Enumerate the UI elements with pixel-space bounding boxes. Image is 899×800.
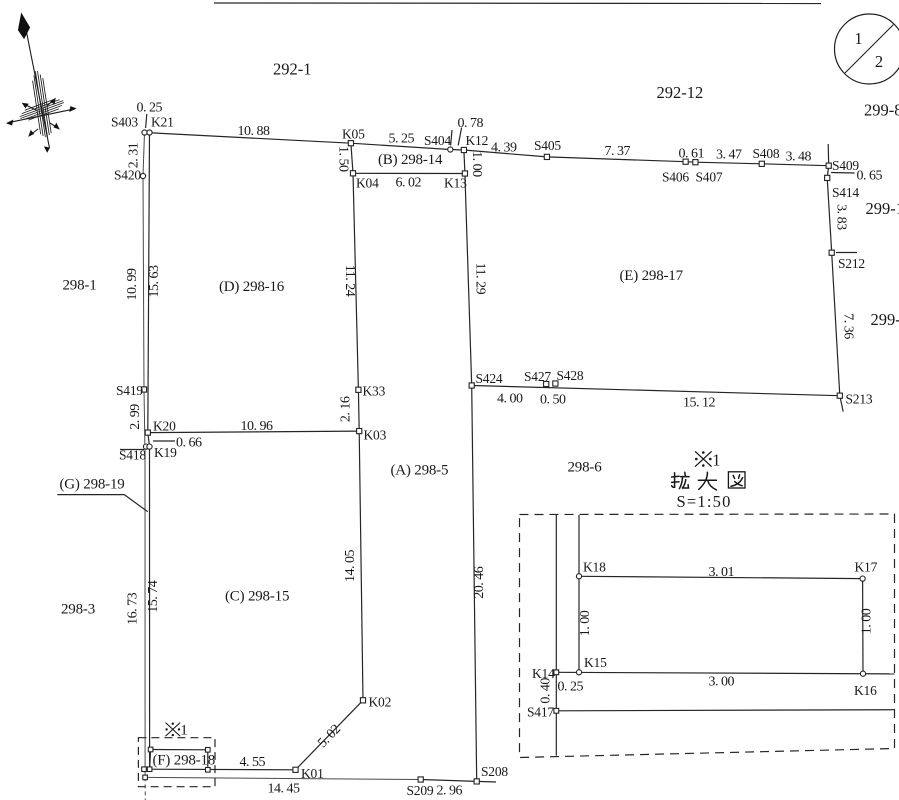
svg-text:11. 29: 11. 29 — [472, 263, 487, 295]
svg-text:2: 2 — [875, 52, 883, 71]
svg-text:299-8: 299-8 — [864, 101, 899, 120]
boundary K12-K13 (1.00) — [464, 150, 465, 174]
boundary K13-S424 (11.29) — [465, 174, 472, 386]
svg-text:10. 88: 10. 88 — [238, 124, 271, 139]
stub below S213 — [840, 396, 843, 412]
svg-text:S424: S424 — [476, 371, 503, 386]
point S405 (square marker) — [544, 154, 549, 159]
svg-text:0. 61: 0. 61 — [679, 147, 705, 162]
detail line K14-K15-K16 (3.00) — [556, 672, 894, 674]
svg-text:S409: S409 — [832, 158, 859, 173]
svg-text:2. 16: 2. 16 — [338, 396, 353, 422]
south line corner-K01 (4.55) — [144, 768, 296, 771]
south line S209-S208 (2.96) — [421, 780, 477, 782]
svg-text:S208: S208 — [481, 764, 508, 779]
svg-text:6. 02: 6. 02 — [396, 176, 422, 191]
svg-text:K15: K15 — [584, 655, 607, 670]
boundary K04-K33 (11.24) — [353, 173, 358, 389]
detail vertical line through K14/S417 — [555, 515, 557, 756]
point S209 (square marker) — [418, 777, 423, 782]
svg-text:S403: S403 — [111, 115, 138, 130]
point F corner NW (square marker) — [148, 747, 153, 752]
boundary S403-K05 (10.88) — [145, 133, 351, 144]
svg-text:3. 01: 3. 01 — [709, 565, 735, 580]
point K12 (square marker) — [461, 147, 466, 152]
svg-text:292-1: 292-1 — [273, 60, 312, 79]
svg-text:K01: K01 — [301, 766, 324, 781]
boundary K04-K13 (6.02) — [353, 172, 465, 174]
point S404 (circle marker) — [448, 147, 453, 152]
svg-text:(F) 298-18: (F) 298-18 — [153, 753, 216, 769]
boundary S424-S208 (20.46) — [472, 386, 477, 782]
svg-text:14. 45: 14. 45 — [268, 782, 301, 797]
svg-text:2. 31: 2. 31 — [127, 142, 142, 168]
point S419 (square marker) — [141, 387, 146, 392]
tick above S403 for 0.25 — [146, 114, 147, 128]
svg-text:S209: S209 — [407, 783, 434, 798]
svg-text:(D) 298-16: (D) 298-16 — [219, 279, 285, 295]
svg-text:299-: 299- — [871, 310, 899, 329]
point K01 (square marker) — [293, 767, 298, 772]
svg-text:S212: S212 — [838, 256, 865, 271]
svg-text:K18: K18 — [583, 560, 606, 575]
svg-text:K03: K03 — [364, 428, 387, 443]
svg-text:S417: S417 — [527, 705, 554, 720]
point S420 (circle marker) — [140, 173, 145, 178]
tick above K12 — [458, 128, 461, 146]
stub above S409 — [827, 144, 830, 166]
leader 0.66 from K19 — [153, 440, 175, 442]
boundary K12-S405 (4.39) — [464, 150, 547, 157]
svg-text:(A) 298-5: (A) 298-5 — [391, 463, 449, 479]
svg-text:K33: K33 — [363, 384, 386, 399]
annotation ※ (large) — [695, 451, 712, 467]
svg-text:S=1:50: S=1:50 — [677, 492, 732, 511]
svg-text:S427: S427 — [524, 369, 551, 384]
point S208 (square marker) — [474, 779, 479, 784]
point S417 (square marker) — [554, 708, 559, 713]
svg-text:10. 96: 10. 96 — [241, 419, 274, 434]
svg-text:2. 99: 2. 99 — [128, 404, 143, 430]
point K04 (square marker) — [350, 171, 355, 176]
svg-text:3. 48: 3. 48 — [786, 150, 812, 165]
svg-text:10. 99: 10. 99 — [125, 268, 140, 301]
point S213 (square marker) — [837, 393, 842, 398]
svg-text:11. 24: 11. 24 — [342, 265, 357, 297]
point K03 (square marker) — [357, 429, 362, 434]
svg-text:S406: S406 — [662, 170, 689, 185]
svg-text:2. 96: 2. 96 — [437, 784, 463, 799]
west K-line K21-K20 (15.63) — [148, 133, 150, 433]
point F corner SE (square marker) — [206, 768, 211, 773]
parcel F rect top — [151, 749, 208, 751]
west S-line S403-S420 (2.31) — [143, 133, 145, 177]
point S424 (square marker) — [469, 383, 474, 388]
svg-text:K04: K04 — [356, 176, 379, 191]
point south corner on S-line (square marker) — [143, 775, 148, 780]
svg-text:7. 36: 7. 36 — [841, 313, 856, 339]
svg-text:(G) 298-19: (G) 298-19 — [60, 477, 125, 493]
detail line S417 east — [556, 710, 894, 711]
svg-text:0. 25: 0. 25 — [558, 680, 584, 695]
svg-text:3. 47: 3. 47 — [716, 148, 742, 163]
svg-text:K19: K19 — [154, 445, 177, 460]
tick at S212 — [836, 252, 857, 254]
svg-text:K05: K05 — [342, 127, 365, 142]
boundary S404-K12 — [450, 149, 464, 152]
boundary K05-K04 (1.50) — [351, 143, 353, 173]
leader 0.65 from S409 — [831, 172, 855, 175]
svg-text:15. 74: 15. 74 — [146, 580, 161, 613]
point K20 (square marker) — [145, 430, 150, 435]
annotation 拡大図 (enlargement) drawn as vector strokes — [672, 472, 745, 490]
svg-text:15. 12: 15. 12 — [683, 396, 716, 411]
point K05 (square marker) — [348, 141, 353, 146]
svg-text:0. 40: 0. 40 — [539, 678, 554, 704]
point K18 (circle marker) — [576, 574, 581, 579]
svg-text:16. 73: 16. 73 — [126, 592, 141, 625]
sheet number circle 1/2 — [835, 14, 899, 84]
point S407 (square marker) — [693, 160, 698, 165]
tick at S418 — [120, 449, 144, 451]
detail line K18-K17 (3.01) — [579, 576, 863, 578]
dashed box enlargement detail — [520, 514, 895, 758]
svg-text:(E) 298-17: (E) 298-17 — [620, 268, 684, 284]
point south corner b (square marker) — [147, 767, 152, 772]
top border heavy line — [214, 2, 821, 5]
point K21 (circle marker) — [147, 130, 152, 135]
svg-text:S404: S404 — [424, 133, 451, 148]
point south corner a (square marker) — [142, 767, 147, 772]
svg-text:299-1: 299-1 — [866, 199, 899, 218]
svg-text:3. 83: 3. 83 — [833, 204, 848, 230]
tick above S404 — [451, 130, 452, 145]
west S-line S419-S418 (2.99) — [144, 390, 145, 453]
point K17 (circle marker) — [860, 576, 865, 581]
svg-text:4. 00: 4. 00 — [497, 392, 523, 407]
boundary K03-K02 (14.05) — [359, 431, 363, 700]
boundary K20-K03 (10.96) — [148, 431, 359, 433]
west S-line S418-south corner (16.73) — [144, 452, 146, 777]
svg-text:4. 39: 4. 39 — [491, 141, 517, 156]
boundary S414-S212 (3.83) — [827, 178, 832, 253]
svg-text:298-3: 298-3 — [61, 602, 95, 618]
point K14 (square marker) — [554, 670, 559, 675]
detail line K17-K16 (1.00) — [862, 579, 864, 674]
boundary S406-S407 (0.61) — [686, 161, 696, 164]
point K15 (circle marker) — [576, 670, 581, 675]
svg-text:K20: K20 — [153, 419, 176, 434]
svg-text:0. 65: 0. 65 — [857, 169, 883, 184]
svg-text:1: 1 — [854, 29, 862, 48]
svg-text:1. 50: 1. 50 — [336, 146, 351, 172]
point S409 (square marker) — [826, 163, 831, 168]
boundary S408-S409 (3.48) — [762, 164, 829, 166]
svg-text:298-1: 298-1 — [63, 278, 97, 294]
svg-text:K13: K13 — [444, 176, 467, 191]
west K-line K20-K19 (0.66) — [148, 433, 150, 447]
svg-text:1. 00: 1. 00 — [469, 151, 484, 177]
detail vertical line through K18-K15 — [578, 515, 580, 672]
dashed box around parcel F — [138, 738, 215, 787]
boundary S405-S406 (7.37) — [547, 157, 686, 162]
boundary S424-S213 (4.00/0.50/15.12) — [472, 386, 840, 396]
point S212 (square marker) — [829, 250, 834, 255]
svg-text:S407: S407 — [696, 170, 723, 185]
stub east of S208 — [477, 780, 496, 783]
svg-text:(C) 298-15: (C) 298-15 — [225, 589, 289, 605]
point K13 (square marker) — [462, 171, 467, 176]
svg-text:S428: S428 — [557, 368, 584, 383]
svg-text:K21: K21 — [151, 115, 174, 130]
S-line below south corner — [144, 777, 146, 800]
svg-text:S414: S414 — [832, 185, 859, 200]
svg-text:20. 46: 20. 46 — [472, 566, 487, 599]
point S428 (square marker) — [553, 381, 558, 386]
svg-text:3. 00: 3. 00 — [709, 675, 735, 690]
boundary S407-S408 (3.47) — [695, 162, 761, 164]
svg-text:K12: K12 — [466, 133, 489, 148]
boundary K05-S404 — [351, 143, 450, 149]
svg-text:S213: S213 — [846, 392, 873, 407]
south line corner-S209 (14.45) — [145, 777, 421, 779]
point S406 (square marker) — [683, 159, 688, 164]
svg-text:S419: S419 — [116, 383, 143, 398]
point K02 (square marker) — [360, 698, 365, 703]
svg-text:14. 05: 14. 05 — [343, 550, 358, 583]
svg-text:0. 66: 0. 66 — [176, 436, 202, 451]
svg-text:1: 1 — [712, 451, 720, 470]
svg-text:1: 1 — [180, 723, 187, 739]
svg-text:K16: K16 — [854, 683, 877, 698]
west S-line S420-S419 (10.99) — [143, 176, 144, 390]
point K19 left (circle marker) — [143, 444, 148, 449]
parcel F rect left — [150, 750, 151, 770]
point S414 (square marker) — [825, 175, 830, 180]
annotation ※ (small) — [165, 723, 180, 737]
point F corner NE (square marker) — [206, 748, 211, 753]
svg-text:7. 37: 7. 37 — [605, 144, 631, 159]
svg-text:1. 00: 1. 00 — [859, 608, 874, 634]
svg-text:0. 78: 0. 78 — [458, 116, 484, 131]
boundary K02-K01 (5.02) — [296, 700, 364, 770]
point K16 (circle marker) — [860, 671, 865, 676]
svg-text:S405: S405 — [534, 138, 561, 153]
svg-text:5. 25: 5. 25 — [389, 132, 415, 147]
point S408 (square marker) — [759, 161, 764, 166]
boundary K33-K03 (2.16) — [357, 390, 360, 431]
point K19 (circle marker) — [147, 444, 152, 449]
parcel F rect right — [207, 750, 209, 770]
svg-text:S418: S418 — [119, 448, 146, 463]
point S403 (circle marker) — [142, 130, 147, 135]
point K33 (square marker) — [356, 387, 361, 392]
svg-text:1. 00: 1. 00 — [578, 610, 593, 636]
svg-text:0. 25: 0. 25 — [137, 101, 163, 116]
svg-text:S420: S420 — [114, 168, 141, 183]
boundary S409-S414 (0.65) — [827, 166, 829, 178]
svg-text:0. 50: 0. 50 — [540, 393, 566, 408]
svg-text:15. 63: 15. 63 — [147, 265, 162, 298]
svg-text:S408: S408 — [753, 146, 780, 161]
svg-text:4. 55: 4. 55 — [240, 755, 266, 770]
boundary S212-S213 (7.36) — [832, 253, 840, 396]
point S427 (square marker) — [544, 381, 549, 386]
svg-text:K02: K02 — [369, 695, 392, 710]
north arrow compass — [6, 14, 77, 153]
svg-text:(B) 298-14: (B) 298-14 — [378, 152, 443, 168]
svg-text:292-12: 292-12 — [657, 83, 704, 102]
leader for (G)298-19 — [57, 495, 147, 512]
west K-line K19-south corner (15.74) — [149, 447, 151, 770]
svg-text:298-6: 298-6 — [568, 460, 603, 476]
svg-text:K17: K17 — [855, 560, 878, 575]
